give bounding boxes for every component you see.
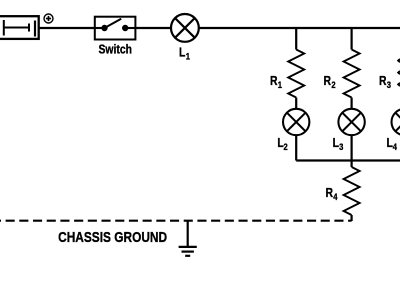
- svg-text:R: R: [325, 186, 333, 200]
- svg-text:CHASSIS GROUND: CHASSIS GROUND: [58, 229, 167, 245]
- svg-text:2: 2: [331, 79, 335, 90]
- svg-text:3: 3: [339, 141, 343, 152]
- svg-text:L: L: [333, 136, 339, 150]
- svg-text:R: R: [379, 74, 387, 88]
- svg-text:1: 1: [186, 50, 190, 61]
- svg-text:L: L: [179, 45, 185, 59]
- svg-text:2: 2: [283, 141, 287, 152]
- svg-text:4: 4: [333, 191, 337, 202]
- svg-text:R: R: [324, 74, 332, 88]
- svg-text:3: 3: [387, 79, 391, 90]
- svg-text:Switch: Switch: [98, 42, 132, 56]
- svg-text:R: R: [270, 74, 278, 88]
- svg-text:4: 4: [393, 141, 397, 152]
- svg-text:1: 1: [278, 79, 282, 90]
